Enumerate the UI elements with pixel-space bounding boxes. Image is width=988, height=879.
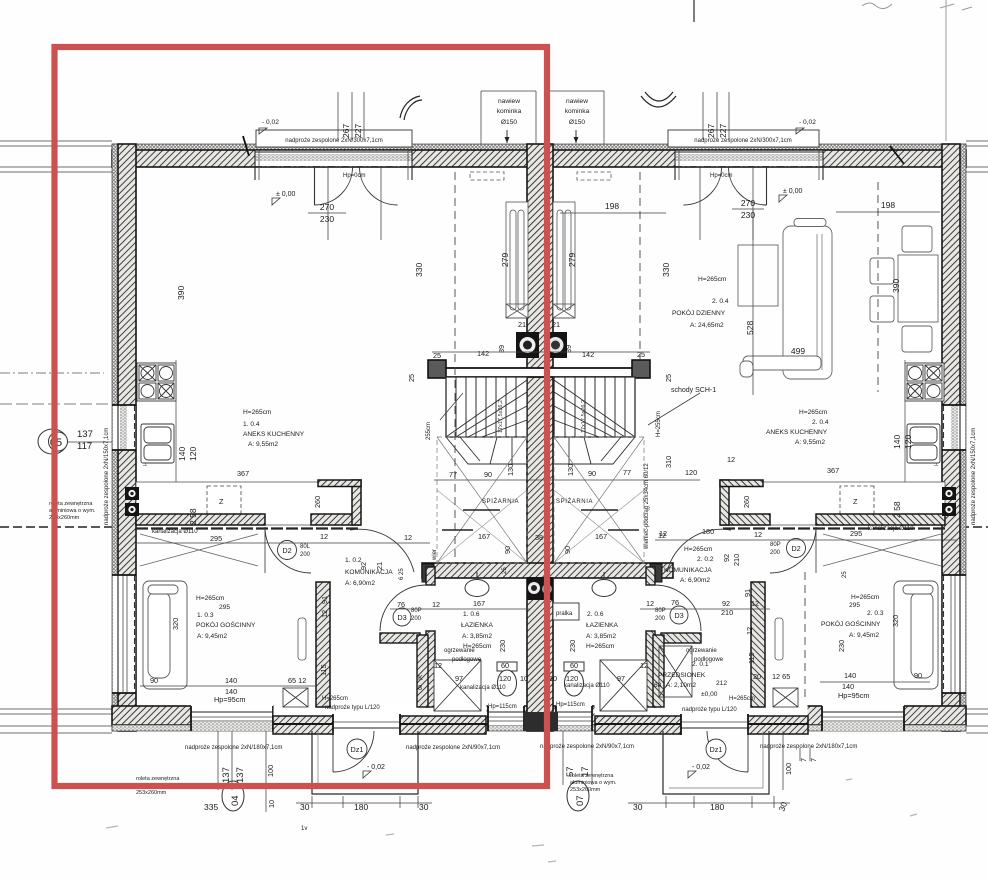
svg-text:90: 90 — [563, 546, 572, 554]
svg-text:Ø150: Ø150 — [569, 119, 585, 126]
svg-text:120: 120 — [685, 468, 697, 477]
room labels — [196, 276, 884, 698]
svg-text:aluminiowa o wym.: aluminiowa o wym. — [570, 780, 617, 786]
svg-text:12: 12 — [404, 533, 412, 542]
entry mat cross — [283, 688, 308, 707]
door D3 arc — [380, 585, 426, 631]
washbasin — [465, 580, 489, 597]
svg-text:nadproże zespolone 2xN/90x7,1c: nadproże zespolone 2xN/90x7,1cm — [406, 745, 500, 751]
svg-text:12: 12 — [751, 599, 759, 608]
270/230 door dims — [320, 198, 755, 224]
window: left bedroom — [191, 705, 273, 731]
svg-text:Z: Z — [853, 497, 858, 506]
cupboard Z dashed — [207, 486, 241, 515]
svg-text:20: 20 — [753, 672, 761, 681]
corridor rotated dims — [171, 496, 900, 676]
svg-text:12: 12 — [727, 455, 735, 464]
svg-text:wier: wier — [432, 549, 438, 561]
svg-text:- 0,02: - 0,02 — [262, 119, 279, 126]
window: right bathroom — [556, 705, 592, 731]
table — [738, 245, 778, 306]
svg-text:367: 367 — [827, 466, 839, 475]
vent shafts nawiew kominka — [481, 91, 604, 144]
window: left bathroom — [488, 705, 524, 731]
svg-text:kanalizacja Ø110: kanalizacja Ø110 — [460, 685, 506, 691]
svg-text:130: 130 — [566, 464, 575, 476]
svg-text:nawiew: nawiew — [498, 98, 520, 105]
svg-text:80P: 80P — [770, 542, 781, 548]
svg-text:140: 140 — [225, 676, 237, 685]
svg-text:ŁAZIENKA: ŁAZIENKA — [586, 622, 618, 629]
svg-text:12: 12 — [754, 530, 762, 539]
pantry region dashed + cross — [437, 437, 527, 563]
svg-text:253x260mm: 253x260mm — [136, 790, 167, 796]
svg-text:142: 142 — [477, 349, 489, 358]
svg-text:Hp=115cm: Hp=115cm — [556, 702, 585, 708]
svg-text:120: 120 — [188, 447, 198, 461]
svg-text:367: 367 — [237, 469, 249, 478]
svg-text:180: 180 — [702, 527, 714, 536]
svg-text:1. 0.4: 1. 0.4 — [243, 421, 260, 428]
svg-text:H=265cm: H=265cm — [799, 409, 828, 416]
wall: bottom center block — [524, 712, 558, 731]
svg-text:Hp=115cm: Hp=115cm — [488, 704, 517, 710]
svg-text:60: 60 — [501, 661, 509, 670]
svg-text:ANEKS KUCHENNY: ANEKS KUCHENNY — [766, 429, 828, 436]
curl marks — [400, 96, 422, 120]
svg-text:212: 212 — [716, 680, 727, 687]
radiator thin at corridor wall — [298, 618, 306, 660]
dining table — [898, 255, 938, 322]
svg-text:25: 25 — [502, 567, 508, 574]
svg-text:KOMUNIKACJA: KOMUNIKACJA — [664, 567, 712, 574]
svg-text:roleta zewnętrzna: roleta zewnętrzna — [136, 776, 180, 782]
svg-text:H=255cm: H=255cm — [656, 411, 662, 437]
porch dim lines — [296, 802, 432, 804]
svg-text:330: 330 — [661, 263, 671, 277]
svg-text:nawiew: nawiew — [566, 98, 588, 105]
svg-text:A: 9,55m2: A: 9,55m2 — [248, 441, 278, 448]
svg-text:200: 200 — [655, 616, 666, 622]
svg-text:137: 137 — [235, 767, 246, 783]
wall: top outer masonry — [112, 150, 966, 167]
shower — [434, 660, 481, 711]
svg-text:227: 227 — [353, 124, 363, 138]
svg-text:kanalizacja Ø110: kanalizacja Ø110 — [564, 683, 610, 689]
svg-text:76: 76 — [397, 600, 405, 609]
svg-text:2 58: 2 58 — [892, 501, 902, 518]
svg-text:499: 499 — [791, 346, 805, 356]
svg-text:12: 12 — [640, 661, 648, 670]
svg-text:2. 0.4: 2. 0.4 — [712, 298, 729, 305]
svg-text:12: 12 — [320, 532, 328, 541]
svg-text:92: 92 — [722, 554, 731, 562]
washer right unit — [553, 603, 579, 620]
roleta tiny texts — [49, 501, 617, 796]
svg-text:80L: 80L — [300, 544, 311, 550]
svg-text:92: 92 — [722, 599, 730, 608]
svg-text:120: 120 — [499, 674, 511, 683]
chimney pair at stairs — [516, 332, 567, 358]
svg-text:295: 295 — [849, 602, 860, 609]
window: left unit terrace door — [255, 150, 412, 180]
svg-text:253x260mm: 253x260mm — [570, 787, 601, 793]
svg-text:270: 270 — [741, 198, 755, 208]
stair winder fan — [446, 380, 527, 464]
svg-text:H=265cm: H=265cm — [322, 696, 348, 702]
svg-text:12 65: 12 65 — [772, 672, 790, 681]
svg-text:30: 30 — [633, 802, 643, 812]
svg-text:21: 21 — [552, 320, 560, 329]
svg-text:295: 295 — [210, 534, 222, 543]
svg-text:H=265cm: H=265cm — [698, 276, 727, 283]
sofa L — [783, 226, 832, 379]
svg-text:227: 227 — [718, 124, 728, 138]
svg-text:8: 8 — [418, 683, 422, 692]
door corridor arc — [350, 529, 414, 572]
stairs treads — [446, 377, 527, 437]
faint scan marks — [106, 779, 917, 862]
svg-text:91: 91 — [743, 589, 752, 597]
svg-text:320: 320 — [171, 618, 180, 630]
svg-text:nadproże typu L/120: nadproże typu L/120 — [682, 707, 737, 713]
svg-text:nadproże zespolone 2xN/300x7,1: nadproże zespolone 2xN/300x7,1cm — [285, 138, 382, 144]
svg-text:2. 0.3: 2. 0.3 — [867, 610, 884, 617]
svg-text:2. 0.4: 2. 0.4 — [812, 419, 829, 426]
svg-text:230: 230 — [568, 640, 577, 652]
svg-text:30: 30 — [300, 802, 310, 812]
svg-text:KOMUNIKACJA: KOMUNIKACJA — [345, 569, 393, 576]
svg-text:kominka: kominka — [497, 108, 522, 115]
svg-text:nadproże zespolone 2xN/180x7,1: nadproże zespolone 2xN/180x7,1cm — [185, 745, 282, 751]
svg-text:D3: D3 — [674, 611, 683, 620]
svg-text:180: 180 — [354, 802, 368, 812]
svg-text:17x17,5x26,2: 17x17,5x26,2 — [498, 400, 504, 433]
svg-text:137: 137 — [77, 429, 93, 440]
svg-text:260: 260 — [742, 496, 751, 508]
window: right bedroom — [822, 705, 904, 731]
svg-text:D2: D2 — [791, 544, 800, 553]
svg-text:H=265cm: H=265cm — [684, 546, 713, 553]
svg-text:1. 0.6: 1. 0.6 — [463, 611, 480, 618]
svg-text:230: 230 — [498, 640, 507, 652]
svg-text:12: 12 — [320, 610, 329, 618]
svg-text:97: 97 — [455, 674, 463, 683]
svg-text:60: 60 — [570, 661, 578, 670]
wire: kanalizacja dashed line out to edges — [0, 526, 118, 528]
svg-text:198: 198 — [605, 201, 619, 211]
svg-text:21: 21 — [518, 320, 526, 329]
svg-text:97: 97 — [617, 674, 625, 683]
svg-text:podłogowe: podłogowe — [452, 657, 482, 663]
svg-text:A: 6,90m2: A: 6,90m2 — [345, 580, 375, 587]
svg-text:kominka: kominka — [565, 108, 590, 115]
sink double — [141, 424, 174, 463]
svg-text:90: 90 — [484, 470, 492, 479]
svg-text:167: 167 — [473, 599, 485, 608]
svg-text:A: 6,90m2: A: 6,90m2 — [680, 577, 710, 584]
svg-text:A: 3,85m2: A: 3,85m2 — [462, 633, 492, 640]
entry door arc — [333, 731, 374, 772]
w-boxes on wall — [125, 487, 139, 500]
wire: window extension dashed lines left margin — [0, 372, 104, 374]
svg-text:210: 210 — [732, 554, 741, 566]
svg-text:320: 320 — [891, 615, 900, 627]
svg-text:200: 200 — [770, 550, 781, 556]
svg-text:200: 200 — [300, 552, 311, 558]
svg-text:230: 230 — [837, 640, 846, 652]
svg-text:100: 100 — [784, 763, 793, 775]
bathroom row dims — [418, 599, 846, 692]
svg-text:100: 100 — [266, 765, 275, 777]
bathroom west wall — [426, 567, 435, 585]
misc extension lines bottom — [218, 731, 783, 812]
svg-text:POKÓJ GOŚCINNY: POKÓJ GOŚCINNY — [821, 619, 881, 628]
svg-text:12: 12 — [646, 599, 654, 608]
svg-text:D3: D3 — [397, 613, 406, 622]
svg-text:A: 3,85m2: A: 3,85m2 — [586, 633, 616, 640]
wall: right outer — [960, 144, 966, 731]
svg-text:6 25: 6 25 — [399, 568, 405, 580]
kanalizacja pipe line — [136, 527, 360, 529]
svg-text:ŁAZIENKA: ŁAZIENKA — [461, 622, 493, 629]
svg-text:267: 267 — [706, 124, 716, 138]
right przedsionek floor cross — [659, 646, 692, 697]
svg-text:nadproże zespolone 2xN/180x7,1: nadproże zespolone 2xN/180x7,1cm — [760, 744, 857, 750]
dashed layout lines — [454, 172, 456, 560]
svg-text:115: 115 — [319, 664, 328, 676]
window: right wall small kitchen window — [942, 405, 966, 450]
svg-text:167: 167 — [595, 532, 607, 541]
window: left wall small kitchen window — [112, 405, 136, 450]
svg-text:76: 76 — [671, 598, 679, 607]
svg-text:90: 90 — [150, 676, 158, 685]
svg-text:wieniec-podciąg 25x34cm 60/12: wieniec-podciąg 25x34cm 60/12 — [644, 463, 650, 550]
svg-text:279: 279 — [567, 253, 577, 267]
svg-text:POKÓJ DZIENNY: POKÓJ DZIENNY — [672, 308, 726, 317]
svg-text:335: 335 — [204, 802, 218, 812]
svg-text:17x17,5x26,2: 17x17,5x26,2 — [581, 400, 587, 433]
svg-text:140: 140 — [842, 682, 854, 691]
svg-text:77: 77 — [623, 468, 631, 477]
circled section marks — [38, 429, 589, 811]
svg-text:200: 200 — [411, 616, 422, 622]
svg-text:Z: Z — [219, 497, 224, 506]
window: right wall lower — [942, 575, 966, 693]
svg-text:2. 0.6: 2. 0.6 — [587, 611, 604, 618]
svg-text:± 0,00: ± 0,00 — [783, 188, 803, 195]
svg-text:nadproże typu L/120: nadproże typu L/120 — [325, 705, 380, 711]
svg-text:pralka: pralka — [556, 611, 573, 617]
svg-text:K: K — [418, 673, 423, 682]
svg-text:1v: 1v — [301, 826, 307, 832]
svg-text:38: 38 — [535, 533, 543, 542]
svg-text:198: 198 — [881, 200, 895, 210]
wire: top wall extension lines left — [0, 141, 988, 733]
wall block at corridor corner — [352, 480, 361, 525]
window: right unit terrace door — [675, 150, 823, 180]
svg-text:140: 140 — [892, 435, 902, 449]
svg-text:H=265cm: H=265cm — [851, 594, 880, 601]
svg-text:Hp=0cm: Hp=0cm — [343, 173, 366, 179]
svg-text:D2: D2 — [282, 546, 291, 555]
svg-text:Dz1: Dz1 — [710, 745, 723, 754]
svg-text:H=265cm: H=265cm — [586, 643, 615, 650]
svg-text:137: 137 — [221, 767, 232, 783]
top wall squiggle marks — [243, 136, 249, 156]
chimney: lower block at bathrooms — [527, 577, 553, 600]
svg-text:schody SCH-1: schody SCH-1 — [671, 387, 716, 394]
toilet — [497, 662, 517, 671]
svg-text:295: 295 — [219, 604, 230, 611]
svg-text:390: 390 — [891, 279, 901, 293]
svg-text:68: 68 — [654, 682, 662, 689]
svg-text:90: 90 — [914, 671, 922, 680]
svg-text:kanalizacja Ø110: kanalizacja Ø110 — [868, 526, 914, 532]
svg-text:Ø150: Ø150 — [501, 119, 517, 126]
svg-text:390: 390 — [176, 286, 186, 300]
svg-text:H=265cm: H=265cm — [243, 409, 272, 416]
svg-text:90: 90 — [588, 469, 596, 478]
svg-text:nadproże zespolone 2xN/150x7,1: nadproże zespolone 2xN/150x7,1cm — [104, 428, 110, 525]
wall: left outer — [112, 144, 118, 731]
svg-text:nadproże zespolone 2xN/90x7,1c: nadproże zespolone 2xN/90x7,1cm — [540, 744, 634, 750]
svg-text:1. 0.3: 1. 0.3 — [197, 612, 214, 619]
svg-text:77: 77 — [449, 470, 457, 479]
svg-text:117: 117 — [77, 441, 92, 452]
svg-text:255cm: 255cm — [426, 422, 432, 440]
svg-text:Dz1: Dz1 — [351, 745, 364, 754]
svg-text:SPIŻARNIA: SPIŻARNIA — [482, 498, 519, 505]
svg-text:12: 12 — [434, 661, 442, 670]
svg-text:528: 528 — [745, 321, 755, 335]
svg-text:30: 30 — [419, 802, 429, 812]
svg-text:230: 230 — [741, 210, 755, 220]
svg-text:04: 04 — [230, 795, 241, 806]
svg-text:H=265cm: H=265cm — [729, 696, 755, 702]
267/227 vertical dims — [341, 124, 728, 138]
svg-text:92: 92 — [359, 562, 368, 570]
wall: center party wall — [527, 144, 553, 731]
svg-text:A: 24,65m2: A: 24,65m2 — [690, 322, 724, 329]
wall kitchen-guestroom b — [311, 514, 360, 525]
kitchen floor cross — [140, 534, 258, 566]
svg-text:Hp=95cm: Hp=95cm — [214, 695, 245, 704]
svg-text:A: 9,55m2: A: 9,55m2 — [795, 439, 825, 446]
svg-text:± 0,00: ± 0,00 — [276, 191, 296, 198]
svg-text:130: 130 — [506, 464, 515, 476]
svg-text:ogrzewanie: ogrzewanie — [444, 648, 475, 654]
svg-text:330: 330 — [414, 263, 424, 277]
svg-text:Hp=0cm: Hp=0cm — [710, 173, 733, 179]
wall kitchen-guestroom a — [136, 514, 265, 525]
door labels with circles — [278, 539, 806, 760]
svg-text:140: 140 — [177, 447, 187, 461]
wall: top outer insulation — [112, 144, 966, 150]
svg-text:25: 25 — [842, 571, 848, 578]
svg-text:ogrzewanie: ogrzewanie — [686, 648, 717, 654]
svg-text:21: 21 — [375, 562, 384, 570]
svg-text:10: 10 — [520, 674, 528, 683]
svg-text:- 0,02: - 0,02 — [799, 119, 816, 126]
svg-text:65 12: 65 12 — [288, 676, 306, 685]
svg-text:12: 12 — [659, 529, 667, 538]
svg-text:180: 180 — [710, 802, 724, 812]
svg-text:H=265cm: H=265cm — [196, 595, 225, 602]
svg-text:310: 310 — [664, 456, 673, 468]
svg-text:2 58: 2 58 — [188, 508, 198, 525]
svg-text:90: 90 — [503, 546, 512, 554]
svg-text:2. 0.2: 2. 0.2 — [697, 556, 714, 563]
svg-text:- 0,02: - 0,02 — [367, 764, 385, 771]
svg-text:260: 260 — [313, 496, 322, 508]
svg-text:140: 140 — [844, 671, 856, 680]
svg-text:230: 230 — [320, 214, 334, 224]
svg-text:±0,00: ±0,00 — [701, 691, 718, 698]
top-right scan marks — [862, 3, 972, 10]
svg-text:07: 07 — [575, 795, 586, 806]
kitchen counter — [136, 482, 361, 525]
svg-text:295: 295 — [850, 529, 862, 538]
door D2 arc — [265, 527, 311, 573]
svg-text:142: 142 — [582, 350, 594, 359]
svg-text:POKÓJ GOŚCINNY: POKÓJ GOŚCINNY — [196, 620, 256, 629]
terrace french doors arcs — [314, 167, 316, 205]
svg-text:25: 25 — [407, 374, 416, 382]
svg-text:- 0,02: - 0,02 — [692, 764, 710, 771]
svg-text:115: 115 — [747, 652, 756, 664]
svg-text:120: 120 — [903, 435, 913, 449]
guest room bottom dims — [150, 671, 922, 704]
svg-text:267: 267 — [341, 124, 351, 138]
door: right entry recessed wall — [595, 705, 809, 736]
svg-text:12: 12 — [432, 600, 440, 609]
door: left entry recessed wall — [273, 705, 487, 736]
rotated room dims — [176, 253, 913, 525]
porch outline — [312, 731, 418, 794]
svg-text:nadproże zespolone 2xN/150x7,1: nadproże zespolone 2xN/150x7,1cm — [971, 428, 977, 525]
svg-text:SPIŻARNIA: SPIŻARNIA — [556, 498, 593, 505]
svg-text:10: 10 — [549, 674, 557, 683]
svg-text:167: 167 — [478, 532, 490, 541]
svg-text:Hp=95cm: Hp=95cm — [838, 691, 869, 700]
svg-text:A: 9,45m2: A: 9,45m2 — [849, 632, 879, 639]
svg-text:kanalizacja Ø110: kanalizacja Ø110 — [152, 529, 198, 535]
red selection rectangle — [55, 47, 548, 786]
svg-text:270: 270 — [320, 202, 334, 212]
svg-text:podłogowe: podłogowe — [694, 657, 724, 663]
svg-text:A: 2,10m2: A: 2,10m2 — [666, 682, 696, 689]
closet at party wall — [506, 202, 528, 318]
lintel label boxes — [256, 130, 412, 147]
wall: stair beam north — [432, 368, 649, 377]
svg-text:PRZEDSIONEK: PRZEDSIONEK — [658, 672, 706, 679]
svg-text:10: 10 — [267, 800, 276, 808]
svg-text:91: 91 — [320, 596, 329, 604]
svg-text:12: 12 — [745, 627, 754, 635]
przedsionek walls — [380, 633, 420, 643]
wall: bottom outer — [112, 706, 966, 725]
svg-text:120: 120 — [566, 674, 578, 683]
corridor wall vertical — [316, 582, 330, 707]
svg-text:A: 9,45m2: A: 9,45m2 — [197, 633, 227, 640]
svg-text:279: 279 — [500, 253, 510, 267]
svg-text:25: 25 — [637, 350, 645, 359]
svg-text:ANEKS KUCHENNY: ANEKS KUCHENNY — [243, 431, 305, 438]
stove — [137, 363, 176, 401]
wall: corridor/bath band across both units — [422, 563, 673, 578]
closet dashed top — [470, 172, 504, 180]
